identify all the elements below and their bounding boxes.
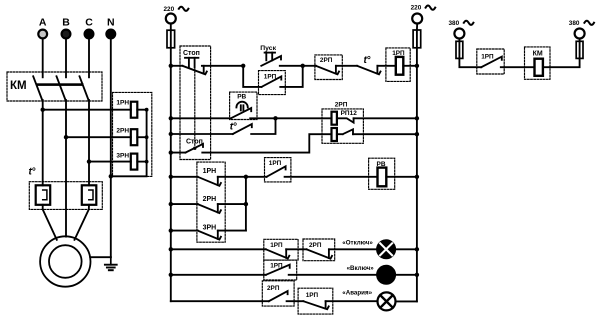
svg-text:380: 380	[569, 20, 580, 27]
svg-text:t°: t°	[230, 121, 237, 132]
contact 3RN NC	[198, 231, 221, 240]
svg-text:220: 220	[164, 6, 175, 13]
junction node start-branch left	[241, 64, 245, 68]
svg-text:t°: t°	[29, 167, 36, 178]
relay RP12 upper armature contact	[337, 118, 354, 122]
lamp Otklyuch (off indicator)	[377, 240, 395, 258]
lamp Avariya (alarm indicator)	[378, 292, 396, 310]
junction node phase A to 1RN	[41, 108, 45, 112]
wire 1RN coil to common return	[111, 110, 147, 177]
wire rung9 rail to 1RP	[171, 274, 266, 276]
terminal 220 left	[166, 14, 176, 24]
svg-text:N: N	[107, 17, 115, 29]
wire rung4 RP12 to right rail	[353, 133, 417, 135]
contact 1RN NC	[198, 177, 221, 186]
wire phase C to motor	[75, 205, 90, 240]
voltage relays enclosure	[113, 92, 152, 176]
wire rung 2RN lead-in	[171, 203, 198, 205]
thermal heater element phase C	[82, 185, 97, 205]
push-button Stop NC contact	[182, 66, 206, 75]
wire rung1 rail to stop button	[171, 65, 183, 67]
wire rung1 2RP to thermal contact	[336, 65, 357, 67]
svg-text:2РП: 2РП	[335, 101, 348, 108]
svg-text:1РН: 1РН	[203, 168, 217, 175]
wire phase C below contactor	[88, 100, 90, 185]
contact 2RP enclosure rung10	[262, 281, 294, 306]
junction node 2RN return	[145, 135, 149, 139]
svg-text:«Отключ»: «Отключ»	[342, 240, 373, 247]
wire rung3 to tie node	[251, 118, 275, 134]
wire neutral N drop	[110, 38, 112, 257]
junction node 3RN return	[145, 160, 149, 164]
lamp Vklyuch (on indicator)	[377, 266, 395, 284]
junction node right rail rung9	[415, 273, 419, 277]
relay RP12 lower armature contact	[337, 129, 353, 134]
junction node left rail rung3	[169, 132, 173, 136]
wire motor frame to earth	[90, 256, 111, 258]
wire 380 left to 1RP	[459, 58, 481, 67]
junction node left rail rung4	[169, 150, 173, 154]
wire rung10 lamp to right rail	[396, 300, 417, 302]
push-button Start NO contact	[261, 56, 281, 66]
wire 2RN coil to common return	[137, 136, 146, 138]
contact 1RP self-hold enclosure	[259, 71, 286, 95]
svg-text:Стоп: Стоп	[183, 50, 200, 57]
contactor KM pole 3 blade	[80, 76, 89, 100]
contact 1RP self-hold NO	[262, 76, 282, 87]
wire 380 left drop	[458, 39, 460, 42]
contact 1RP enclosure rung5	[265, 158, 291, 182]
contactor coil KM	[535, 59, 543, 76]
label ~ right 220 (AC tilde)	[426, 6, 436, 10]
thermal heater element phase A	[36, 185, 51, 205]
terminal 220 right	[412, 14, 422, 24]
wire rung8 2RP to lamp	[329, 248, 377, 250]
contact RV NO time-delay	[231, 108, 251, 118]
wire rung 2RN lead-out	[218, 203, 246, 205]
wire rung10 rail to 2RP	[171, 300, 269, 302]
wire branch C to relay 3RN	[89, 161, 131, 163]
wire rung10 2RP to 1RP	[287, 300, 304, 302]
fuse left 220	[167, 30, 175, 48]
push-button Start NO actuator	[265, 52, 275, 54]
svg-text:РВ: РВ	[237, 94, 246, 101]
junction node left rail rung1	[169, 64, 173, 68]
wire rung1 coil to right rail	[403, 65, 417, 67]
wire right rail top	[416, 24, 418, 31]
svg-text:2РП: 2РП	[309, 242, 322, 249]
svg-text:3РН: 3РН	[116, 152, 129, 159]
wire rung1 to 2RP	[303, 65, 316, 67]
contactor KM linkage bar	[36, 83, 84, 86]
svg-text:B: B	[62, 17, 70, 29]
svg-text:КМ: КМ	[533, 50, 543, 57]
relay 1RP coil enclosure	[386, 48, 410, 82]
contact 1RP enclosure 380	[477, 49, 504, 74]
stop button actuator link (dashed)	[194, 59, 196, 147]
wire rung2 to RP12 coil1	[276, 117, 332, 119]
junction node stop actuator tip	[193, 147, 196, 150]
contact 1RP NO rung9	[266, 265, 290, 275]
svg-text:2РП: 2РП	[320, 57, 333, 64]
terminal C	[85, 30, 94, 39]
contact 1RP enclosure rung9	[264, 260, 297, 280]
svg-text:2РН: 2РН	[203, 196, 217, 203]
terminal 380 left	[454, 29, 464, 39]
wire right rail	[416, 48, 418, 301]
wire rung4 to RP12 coil2	[202, 134, 331, 152]
label ~ left 380 (AC tilde)	[464, 21, 474, 25]
wire rung8 1RP to 2RP	[286, 248, 306, 250]
svg-text:1РП: 1РП	[270, 242, 283, 249]
junction node RN common rung6	[244, 202, 248, 206]
junction node rung2-rung3 tie	[273, 116, 277, 120]
junction node phase B to 2RN	[64, 135, 68, 139]
svg-text:2РН: 2РН	[116, 127, 129, 134]
junction node right rail rung2	[415, 116, 419, 120]
terminal A	[38, 30, 47, 39]
svg-text:2РП: 2РП	[267, 285, 280, 292]
terminal N	[106, 30, 115, 39]
junction node left rail rung2	[169, 116, 173, 120]
wire self-hold branch right rise	[280, 66, 302, 87]
junction node left rail 2RN	[169, 202, 173, 206]
contact RV time-delay symbol	[236, 102, 247, 108]
junction node relay return to neutral	[109, 174, 113, 178]
contact 2RP enclosure rung8	[303, 239, 335, 261]
label ~ right 380 (AC tilde)	[584, 21, 594, 25]
motor M	[40, 236, 90, 286]
junction node left rail 1RN	[169, 175, 173, 179]
contact 2RP NO rung10	[269, 291, 288, 301]
contact 1RP NC rung10	[303, 301, 328, 309]
push-button Stop NO contact	[185, 144, 203, 153]
svg-text:1РП: 1РП	[269, 160, 282, 167]
svg-text:«Включ»: «Включ»	[347, 265, 375, 272]
svg-text:1РП: 1РП	[306, 292, 319, 299]
relay coil RV	[378, 168, 387, 187]
terminal B	[62, 30, 71, 39]
wire branch B to relay 2RN	[66, 136, 131, 138]
wire rung 1RN lead-in	[171, 176, 198, 178]
contact 2RP NC rung8	[307, 249, 332, 258]
wire rung2 RV to node	[250, 117, 275, 119]
wire rung9 lamp to right rail	[395, 274, 417, 276]
svg-text:380: 380	[449, 20, 460, 27]
contact RV enclosure	[230, 92, 257, 119]
wire rung2 rail to RV	[171, 117, 231, 119]
contact 2RP enclosure rung1	[315, 55, 342, 80]
wire rung10 1RP to lamp	[326, 300, 378, 302]
stop button station enclosure	[180, 46, 211, 160]
junction node right rail rung3	[415, 132, 419, 136]
wire phase A below contactor	[42, 100, 44, 185]
junction node right rail rung8	[415, 247, 419, 251]
wire phase A to motor	[43, 205, 57, 240]
contact 1RP enclosure rung8	[264, 239, 298, 260]
relay RV coil enclosure	[369, 158, 395, 189]
wire branch A to relay 1RN	[43, 109, 131, 111]
wire 3RN coil to common return	[137, 161, 146, 163]
svg-text:3РН: 3РН	[203, 224, 217, 231]
svg-text:Пуск: Пуск	[260, 45, 276, 52]
wire rung3 rail to thermal contact	[171, 133, 233, 135]
wire rung8 rail to 1RP	[171, 248, 266, 250]
wire rung1 stop to start node	[202, 65, 243, 67]
wire left rail	[170, 48, 172, 301]
svg-text:A: A	[39, 17, 47, 29]
wire rung5 1RP to RV coil	[285, 176, 378, 178]
junction node start-branch right	[301, 64, 305, 68]
relay coil 2RN	[131, 129, 138, 145]
svg-text:1РН: 1РН	[116, 99, 129, 106]
wire 380 right rise	[579, 39, 581, 42]
svg-text:C: C	[85, 17, 93, 29]
wire 380 KM coil to right terminal	[543, 58, 580, 67]
contact 1RP NO 380	[481, 57, 502, 68]
junction node left rail rung8	[169, 247, 173, 251]
junction node left rail rung9	[169, 273, 173, 277]
junction node 1RN return	[145, 108, 149, 112]
wire rung9 1RP to lamp	[289, 274, 378, 276]
junction node left rail 3RN	[169, 228, 173, 232]
wire phase B drop to contactor	[65, 38, 67, 77]
contact 1RP enclosure rung10	[298, 288, 333, 314]
wire rung2 RP12 to right rail	[354, 117, 417, 119]
push-button Stop NC actuator	[185, 57, 198, 59]
wire rung 3RN lead-in	[171, 230, 198, 232]
junction node right rail rung5	[415, 175, 419, 179]
terminal 380 right	[575, 29, 585, 39]
fuse 380 right	[576, 41, 583, 58]
relay coil 1RN	[131, 102, 138, 118]
wire rung1 thermal to 1RP coil	[377, 65, 395, 67]
svg-text:t°: t°	[364, 55, 371, 66]
wire rung1 start to node	[280, 65, 303, 67]
contactor KM pole 2 blade	[57, 76, 66, 100]
contacts 1RN-3RN enclosure	[197, 162, 225, 242]
relay coil 2RP upper	[332, 112, 337, 125]
wire rung4 rail to stop NO	[171, 152, 186, 154]
relay coil 3RN	[131, 154, 138, 170]
wire 380 1RP to KM coil	[501, 66, 535, 68]
wire left rail top	[170, 24, 172, 31]
junction node right rail rung1	[415, 64, 419, 68]
relay coil 1RP	[396, 57, 404, 75]
fuse right 220	[413, 30, 421, 48]
svg-text:1РП: 1РП	[481, 54, 494, 61]
contact 1RP NO rung5	[267, 166, 286, 177]
wire phase B below contactor	[65, 100, 67, 237]
relay coil 2RP lower	[332, 128, 337, 141]
wire rung 3RN lead-out	[218, 230, 246, 232]
fuse 380 left	[456, 41, 463, 58]
wire rung8 lamp to right rail	[395, 248, 417, 250]
contactor KM pole 1 blade	[33, 76, 42, 100]
wire phase C drop to contactor	[88, 38, 90, 77]
thermal overload enclosure	[29, 182, 102, 210]
label ~ left 220 (AC tilde)	[179, 7, 189, 11]
junction node RN common rung5	[244, 175, 248, 179]
contact 1RP NC rung8	[266, 249, 289, 258]
wire RN common vertical	[245, 177, 247, 231]
svg-text:220: 220	[411, 5, 422, 12]
svg-text:«Авария»: «Авария»	[342, 290, 372, 297]
thermal contact t NO rung3	[233, 124, 252, 134]
ground	[110, 257, 112, 265]
wire rung5 to 1RP contact	[246, 176, 267, 178]
contactor KM coil enclosure	[525, 47, 551, 79]
junction node phase C to 3RN	[87, 159, 91, 163]
contact 2RN NC	[198, 204, 221, 213]
wire self-hold branch left drop	[243, 66, 261, 87]
wire rung5 RV coil to right rail	[386, 176, 417, 178]
wire phase A drop to contactor	[42, 38, 44, 77]
contactor KM enclosure	[7, 72, 102, 101]
thermal contact t NC rung1	[357, 66, 380, 75]
svg-text:КМ: КМ	[10, 80, 27, 92]
svg-text:РП12: РП12	[341, 110, 358, 117]
contact 2RP NC rung1	[316, 66, 339, 75]
relay 2RP RP12 enclosure	[322, 109, 363, 143]
wire rung 1RN lead-out	[218, 176, 246, 178]
